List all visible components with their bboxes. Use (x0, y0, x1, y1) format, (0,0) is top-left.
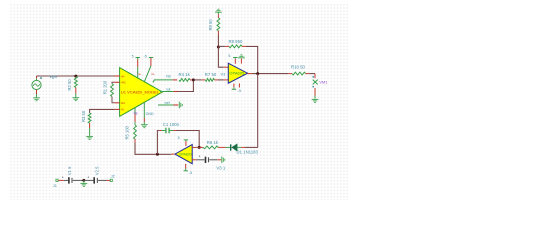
svg-text:V3: V3 (221, 71, 226, 76)
ground (86, 135, 93, 137)
pin -IN (115, 108, 120, 110)
voltmeter VM1 (314, 74, 316, 79)
svg-text:OPA820: OPA820 (179, 153, 192, 157)
resistor R5 100 (134, 118, 136, 122)
junction out (256, 72, 259, 75)
wire (193, 79, 201, 81)
svg-text:R8 950: R8 950 (229, 39, 243, 44)
jumper J2 (110, 179, 112, 181)
svg-text:Vs-: Vs- (151, 73, 155, 76)
junction (198, 146, 201, 149)
op-amp U2 integrator OPA820 (points left) (175, 145, 192, 164)
ground vref (178, 102, 180, 109)
source VG1 (32, 80, 41, 89)
U1 Vs+ supply pin (137, 59, 139, 67)
wire R5 to integrator out (135, 143, 171, 155)
wire vertical to output (257, 74, 259, 148)
svg-text:-5: -5 (238, 89, 241, 93)
svg-text:vref: vref (164, 101, 169, 105)
pin +IN (192, 159, 196, 161)
ground (215, 11, 222, 13)
pin Vg (134, 108, 136, 114)
wire out to junction (178, 80, 193, 92)
svg-text:R10 50: R10 50 (291, 65, 305, 70)
junction (217, 46, 220, 49)
ground (72, 97, 79, 99)
pin out (171, 153, 175, 155)
svg-text:+: + (87, 175, 89, 179)
svg-text:-5: -5 (144, 54, 147, 58)
svg-text:-5: -5 (189, 171, 192, 175)
OPA695 gnd pin (240, 59, 242, 64)
pin out (248, 73, 252, 75)
svg-text:R1 200: R1 200 (103, 80, 108, 94)
svg-text:-IN: -IN (121, 109, 124, 112)
resistor R3 50 (88, 113, 91, 123)
resistor R2 50 (74, 77, 77, 88)
svg-text:5: 5 (178, 136, 180, 140)
svg-text:Vg: Vg (133, 111, 137, 115)
svg-text:5: 5 (228, 54, 230, 58)
wire (36, 90, 38, 95)
svg-text:OPA695: OPA695 (229, 72, 244, 76)
ground up (238, 57, 245, 59)
wire (157, 131, 159, 155)
U1 Vs- supply pin (150, 58, 152, 66)
svg-text:Vs+: Vs+ (137, 73, 142, 76)
ground (141, 124, 148, 126)
svg-text:R6 1k: R6 1k (207, 140, 219, 145)
pin -IN (192, 146, 196, 148)
svg-text:VM1: VM1 (319, 80, 328, 85)
pin FB / wire to R4 (153, 80, 173, 83)
pin OUT (160, 91, 174, 93)
svg-text:-RG: -RG (121, 102, 126, 105)
svg-text:V2 5: V2 5 (95, 166, 100, 175)
battery V3 1 (196, 159, 204, 161)
wire out (252, 73, 288, 75)
junction (192, 78, 195, 81)
resistor R4 1k (179, 79, 190, 82)
wire feedback (218, 47, 223, 67)
battery V1 5 (64, 179, 68, 181)
OPA695 supply pin V- (233, 84, 235, 88)
op-amp U3 OPA695 (228, 63, 247, 83)
wire -IN to R3 (90, 109, 115, 113)
ground (33, 97, 40, 99)
op-amp U1 VCA820_MODEL (120, 68, 163, 117)
wire (245, 146, 258, 148)
svg-text:U1 VCA820_MODEL: U1 VCA820_MODEL (121, 91, 159, 95)
svg-text:+RG: +RG (121, 82, 126, 85)
resistor R8 950 (218, 45, 225, 47)
pin +RG (115, 81, 120, 83)
svg-text:+: + (199, 155, 201, 159)
svg-text:D1 1N1183: D1 1N1183 (237, 149, 259, 154)
resistor R1 200 (112, 82, 115, 84)
wire feedback vertical (246, 46, 258, 73)
svg-text:R2 50: R2 50 (67, 79, 72, 91)
svg-text:R4 1k: R4 1k (179, 72, 191, 77)
svg-text:vgn: vgn (50, 75, 58, 80)
svg-text:+: + (62, 175, 64, 179)
battery V2 5 (84, 179, 94, 181)
junction (82, 179, 85, 182)
resistor R6 1k (199, 146, 203, 148)
ground center (83, 180, 85, 182)
junction (156, 153, 159, 156)
pin -RG (115, 102, 120, 104)
svg-text:C1 100n: C1 100n (163, 122, 180, 127)
integrator supply pin bottom (185, 164, 187, 169)
svg-text:R7 50: R7 50 (205, 72, 217, 77)
ground right (221, 156, 223, 163)
wire (58, 179, 64, 181)
pin vref (158, 104, 174, 106)
resistor R10 50 (288, 73, 292, 75)
svg-text:R5 100: R5 100 (124, 125, 129, 139)
junction (74, 75, 77, 78)
svg-text:R9 50: R9 50 (208, 19, 213, 31)
svg-text:out: out (166, 88, 171, 92)
integrator supply pin top (185, 141, 187, 146)
svg-text:GND: GND (146, 112, 154, 116)
svg-text:V3 1: V3 1 (216, 165, 225, 170)
diode D1 1N1183 (points left) (222, 146, 226, 148)
svg-text:5: 5 (132, 55, 134, 59)
wire C1 to inverting node (176, 131, 199, 148)
OPA695 supply pin V+ (234, 59, 236, 64)
pin GND (143, 102, 145, 118)
pin +IN (115, 75, 120, 77)
svg-text:FB: FB (166, 74, 171, 78)
wire (217, 35, 219, 48)
svg-text:V1 5: V1 5 (67, 166, 72, 175)
wire vgn net (37, 75, 120, 77)
svg-text:R3 50: R3 50 (81, 110, 86, 122)
ground (312, 98, 319, 100)
svg-text:+IN: +IN (121, 75, 125, 78)
grid dots (10, 4, 348, 200)
jumper J1 (56, 179, 58, 181)
